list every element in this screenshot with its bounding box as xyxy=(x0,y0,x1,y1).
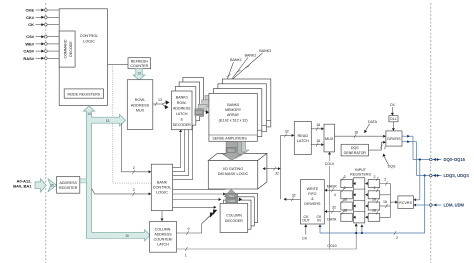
svg-text:MASK: MASK xyxy=(327,184,338,188)
teal bus: address register stub xyxy=(80,179,87,183)
svg-text:DM MASK LOGIC: DM MASK LOGIC xyxy=(218,172,249,176)
svg-text:CK#: CK# xyxy=(26,15,35,20)
pin A0-A12 BA0 BA1 xyxy=(13,179,32,189)
svg-text:16: 16 xyxy=(343,197,347,201)
svg-text:CK: CK xyxy=(302,237,308,241)
pin CK to DLL xyxy=(390,103,396,116)
block: column-address counter/latch xyxy=(150,222,177,253)
svg-text:DLL: DLL xyxy=(390,117,397,121)
wire: COL0 riser to MUX xyxy=(323,152,336,249)
svg-text:COUNTER: COUNTER xyxy=(130,64,148,68)
block: DQS generator xyxy=(341,144,368,156)
svg-text:1: 1 xyxy=(185,254,187,258)
teal arrow: address input xyxy=(35,179,46,192)
svg-text:BA0, BA1: BA0, BA1 xyxy=(13,184,32,189)
svg-text:RCVRS: RCVRS xyxy=(399,201,412,205)
wire: CK into write fifo xyxy=(302,224,308,240)
block: read latch xyxy=(294,121,311,154)
block: DLL xyxy=(389,116,398,122)
svg-text:ROW-: ROW- xyxy=(177,101,188,105)
wire: mask path write fifo (4) xyxy=(324,184,340,197)
svg-text:COL0: COL0 xyxy=(327,244,336,248)
label DATA with leader xyxy=(364,120,377,134)
svg-text:BANK3: BANK3 xyxy=(259,49,271,53)
svg-text:MEMORY: MEMORY xyxy=(225,108,242,112)
block: I/O gating DM mask logic (3D) xyxy=(208,153,267,189)
svg-text:CK: CK xyxy=(390,103,396,107)
pin CK# xyxy=(26,15,59,20)
block: rcvrs xyxy=(398,196,414,209)
gray arrow: sense amps to I/O gating (8192) xyxy=(222,142,249,161)
wire: COL0 long line xyxy=(177,223,358,257)
svg-text:BANK1: BANK1 xyxy=(230,58,242,62)
svg-text:CONTROL: CONTROL xyxy=(153,185,172,189)
svg-text:LOGIC: LOGIC xyxy=(83,40,95,44)
connector stack: 8192 row lines xyxy=(195,96,214,116)
svg-text:16: 16 xyxy=(383,200,387,204)
label BANK2 with leader xyxy=(229,53,257,83)
svg-text:2: 2 xyxy=(344,175,346,179)
pin WE# xyxy=(25,41,59,46)
svg-text:WRITE: WRITE xyxy=(307,187,319,191)
wire: DQS generator to drivers (2) xyxy=(369,141,387,150)
block: drivers xyxy=(386,131,402,146)
pin CKE xyxy=(26,8,60,13)
label BANK1 with leader xyxy=(224,58,242,89)
teal arrow: refresh counter to row-address mux xyxy=(133,69,145,80)
gray arrow: column decoder to I/O gating (512 x32) xyxy=(224,189,242,203)
svg-text:COUNTER/: COUNTER/ xyxy=(154,238,173,242)
svg-text:MUX: MUX xyxy=(325,137,334,141)
svg-text:REFRESH: REFRESH xyxy=(131,59,149,63)
wire: bank control logic to column counter xyxy=(161,211,164,222)
wires: bank control logic up to row latch stack (staircase) xyxy=(173,118,193,180)
svg-text:REGISTER: REGISTER xyxy=(59,186,78,190)
svg-text:WE#: WE# xyxy=(25,41,34,46)
svg-text:16: 16 xyxy=(316,139,320,143)
svg-text:FIFO: FIFO xyxy=(308,192,316,196)
block stack: bank memory arrays with sense amplifiers xyxy=(209,79,271,141)
svg-text:LATCH: LATCH xyxy=(157,243,169,247)
block: mux xyxy=(324,124,335,152)
svg-text:32: 32 xyxy=(292,194,296,198)
blue wire: drivers output 2 xyxy=(402,140,417,175)
svg-text:ROW-: ROW- xyxy=(135,98,146,102)
label DQS with leader xyxy=(383,154,396,169)
svg-text:2: 2 xyxy=(133,188,135,192)
block: command decode xyxy=(59,31,75,67)
svg-text:BANK0: BANK0 xyxy=(176,95,188,99)
block: bank control logic xyxy=(151,164,172,210)
pin CK xyxy=(28,22,59,27)
svg-text:READ: READ xyxy=(298,134,309,138)
svg-text:ADDRESS: ADDRESS xyxy=(173,106,191,110)
blue wire: DQ to rcvrs xyxy=(413,160,419,202)
wires: bank control logic to column decoder xyxy=(173,189,226,208)
svg-text:13: 13 xyxy=(137,72,141,76)
wire: trunk to read latch (32) xyxy=(281,130,295,138)
wire: I/O gating to trunk double arrow (32) xyxy=(263,167,281,176)
svg-text:2: 2 xyxy=(384,178,386,182)
svg-text:LOGIC: LOGIC xyxy=(156,190,168,194)
svg-text:CAS#: CAS# xyxy=(23,49,34,54)
svg-text:I/O GATING: I/O GATING xyxy=(223,167,243,171)
svg-text:LATCH: LATCH xyxy=(297,139,309,143)
svg-text:LDM, UDM: LDM, UDM xyxy=(444,203,465,208)
svg-text:16: 16 xyxy=(343,209,347,213)
svg-text:16: 16 xyxy=(372,209,376,213)
svg-text:10: 10 xyxy=(125,234,129,238)
svg-text:16: 16 xyxy=(354,130,358,134)
svg-text:SENSE AMPLIFIERS: SENSE AMPLIFIERS xyxy=(212,137,247,141)
svg-text:INPUT: INPUT xyxy=(355,168,367,172)
blue wire: DQS down to CK in xyxy=(319,176,425,240)
block stack: bank row-address latch & decoder xyxy=(172,78,204,130)
svg-text:9: 9 xyxy=(188,227,190,231)
svg-text:2: 2 xyxy=(133,166,135,170)
blue wire: DQS pad line xyxy=(417,174,442,177)
right chip-boundary dashed line xyxy=(430,3,432,263)
block: write FIFO and drivers xyxy=(301,180,325,224)
wires: read latch to mux (16,16) xyxy=(311,123,324,147)
svg-text:CKE: CKE xyxy=(26,8,35,13)
svg-text:13: 13 xyxy=(158,98,162,102)
wire: trunk I/O gating vertical xyxy=(280,135,282,199)
svg-text:BANK: BANK xyxy=(157,180,168,184)
svg-text:14: 14 xyxy=(87,112,91,116)
svg-text:2: 2 xyxy=(396,236,398,240)
svg-text:2: 2 xyxy=(344,186,346,190)
input register left boxes xyxy=(341,175,356,222)
svg-text:OUT: OUT xyxy=(302,218,310,222)
svg-text:CS#: CS# xyxy=(26,34,35,39)
block: row-address mux xyxy=(127,80,153,130)
wire: data path write fifo (32) xyxy=(324,206,340,222)
svg-text:MODE REGISTERS: MODE REGISTERS xyxy=(68,92,101,96)
svg-text:15: 15 xyxy=(50,184,54,188)
pin CS# xyxy=(26,34,59,39)
pin CAS# xyxy=(23,49,59,54)
svg-text:COLUMN: COLUMN xyxy=(226,214,242,218)
pin RAS# xyxy=(23,56,59,61)
label BANK3 with leader xyxy=(233,49,271,79)
wire: row mux to latch stack with 13 xyxy=(153,98,170,109)
svg-text:16: 16 xyxy=(372,197,376,201)
wire: bus to bank control logic lower (2) xyxy=(92,188,152,196)
svg-text:ADDRESS: ADDRESS xyxy=(60,181,78,185)
svg-text:4: 4 xyxy=(334,193,336,197)
block: control logic xyxy=(59,9,107,106)
wire: DLL to drivers xyxy=(392,122,395,131)
wire: mux to drivers (16) xyxy=(335,130,386,138)
svg-text:DQS: DQS xyxy=(351,146,359,150)
svg-text:CK: CK xyxy=(28,22,34,27)
svg-text:DATA: DATA xyxy=(327,217,337,221)
svg-text:COMMAND: COMMAND xyxy=(63,39,67,58)
left chip-boundary dashed line xyxy=(45,3,47,263)
label: input registers xyxy=(350,168,371,177)
svg-text:BANK2: BANK2 xyxy=(245,53,257,57)
wire: bus to bank control logic upper (2) xyxy=(122,123,152,174)
svg-text:BANK0: BANK0 xyxy=(227,103,239,107)
teal bus: vertical address bus xyxy=(83,106,150,241)
svg-text:13: 13 xyxy=(106,119,110,123)
svg-text:8192: 8192 xyxy=(196,111,203,115)
svg-text:2: 2 xyxy=(374,175,376,179)
svg-text:LATCH: LATCH xyxy=(176,112,188,116)
svg-text:32: 32 xyxy=(285,130,289,134)
block: address register xyxy=(57,177,80,194)
blue wire: DQ pad line xyxy=(413,158,442,161)
wire: counter to column decoder (9) xyxy=(177,210,218,236)
blue wire: LDM UDM input xyxy=(413,204,441,207)
svg-text:LDQS, UDQS: LDQS, UDQS xyxy=(444,173,470,178)
svg-text:32: 32 xyxy=(332,206,336,210)
svg-text:(x32): (x32) xyxy=(228,199,235,203)
svg-text:512: 512 xyxy=(229,194,234,198)
svg-text:MUX: MUX xyxy=(136,109,145,113)
block: refresh counter xyxy=(128,58,151,69)
svg-text:32: 32 xyxy=(275,172,279,176)
svg-text:ADDRESS: ADDRESS xyxy=(131,103,150,107)
svg-text:RAS#: RAS# xyxy=(23,56,34,61)
svg-text:2: 2 xyxy=(384,146,386,150)
svg-text:IN: IN xyxy=(317,218,321,222)
svg-text:16: 16 xyxy=(316,123,320,127)
svg-text:DECODE: DECODE xyxy=(69,41,73,57)
svg-text:GENERATOR: GENERATOR xyxy=(344,151,367,155)
svg-text:DECODER: DECODER xyxy=(225,219,243,223)
block stack: column decoder xyxy=(220,194,258,233)
svg-text:DQ0–DQ15: DQ0–DQ15 xyxy=(444,157,466,162)
svg-text:DECODER: DECODER xyxy=(173,123,191,127)
dotted wire: control logic to bank control logic xyxy=(113,64,152,183)
svg-text:CONTROL: CONTROL xyxy=(80,34,99,38)
svg-text:DQS: DQS xyxy=(388,165,396,169)
svg-text:2: 2 xyxy=(374,186,376,190)
svg-text:COLUMN-: COLUMN- xyxy=(155,228,173,232)
wire: write fifo to trunk (32) xyxy=(284,194,301,202)
wires: rcvrs to input register right boxes xyxy=(380,178,398,218)
svg-text:ARRAY: ARRAY xyxy=(227,113,240,117)
svg-text:ADDRESS: ADDRESS xyxy=(154,233,172,237)
input register right boxes xyxy=(365,175,380,222)
block: mode registers xyxy=(64,89,103,98)
svg-text:REGISTERS: REGISTERS xyxy=(350,173,371,177)
wire: control logic to refresh counter xyxy=(108,63,129,65)
svg-text:DRVRS: DRVRS xyxy=(387,137,401,141)
blue wire: drivers output 1 xyxy=(402,135,413,160)
block: input register column xyxy=(354,178,365,223)
svg-text:COL0: COL0 xyxy=(325,162,334,166)
svg-text:8192: 8192 xyxy=(228,148,235,152)
svg-text:DATA: DATA xyxy=(368,120,378,124)
svg-text:DRIVERS: DRIVERS xyxy=(304,202,321,206)
teal arrow: address input chevron with 15 xyxy=(48,179,57,192)
svg-text:(8,192 x 512 x 32): (8,192 x 512 x 32) xyxy=(219,119,248,123)
